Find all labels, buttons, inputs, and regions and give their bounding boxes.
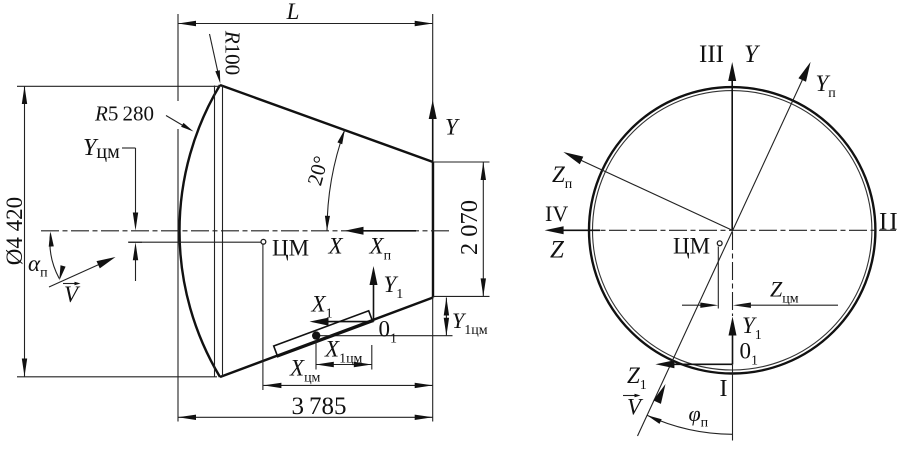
horizontal centerline (Z axis line) [549, 229, 896, 231]
svg-text:Ø4 420: Ø4 420 [2, 197, 27, 265]
svg-text:R100: R100 [221, 30, 245, 75]
svg-text:II: II [879, 209, 900, 236]
base circle (rear view), double contour [589, 87, 875, 373]
dimension Y_cm (center of mass height) [83, 135, 261, 281]
dimension X_cm [263, 356, 432, 389]
velocity vector V (rear view) [623, 384, 666, 420]
dimension Y_1cm [444, 298, 488, 339]
axis X and X_p along centerline [328, 227, 417, 264]
origin 0_1 label (left view) [379, 317, 398, 347]
angle alpha_p arc [28, 232, 66, 281]
leader R100 [210, 30, 245, 84]
svg-text:IV: IV [545, 201, 568, 226]
sphere-cone junction lines [215, 86, 223, 377]
origin 0_1 label (rear view) [740, 339, 759, 369]
svg-text:III: III [699, 41, 724, 68]
quadrant label III [699, 41, 724, 68]
inclined plate (body 1) [274, 311, 373, 357]
horizontal centerline of capsule [41, 230, 452, 232]
quadrant label II [879, 209, 900, 236]
dimension 3 785 [178, 393, 433, 420]
horizontal reference line through plate CM [316, 335, 453, 337]
vertical centerline below center [732, 232, 734, 441]
quadrant label I [720, 376, 728, 402]
svg-text:R5 280: R5 280 [94, 102, 154, 126]
svg-text:I: I [720, 376, 728, 402]
plate center-of-mass dot [312, 331, 320, 369]
center of mass marker (rear view) [673, 234, 722, 309]
quadrant label IV [545, 201, 568, 226]
axis X_1 (left view) [310, 292, 374, 326]
extension line left (nose tip) [177, 14, 179, 422]
dimension diameter 4 420 [2, 86, 220, 377]
axis Z_1 (rear view) [627, 360, 733, 393]
dimension X_1cm [316, 337, 372, 370]
dimension L [178, 0, 433, 26]
svg-text:3 785: 3 785 [291, 393, 346, 420]
angle phi_p arc [647, 401, 732, 434]
svg-text:2 070: 2 070 [456, 200, 483, 255]
axis Z_p [552, 152, 732, 230]
axis Y_p line through center [638, 62, 837, 436]
axis Y (rear view) [728, 41, 761, 230]
capsule body outline (spherical nose + conical frustum) [179, 85, 433, 377]
dimension Z_cm [682, 277, 838, 308]
dimension 2 070 (base diameter) [433, 162, 490, 296]
svg-text:ЦМ: ЦМ [272, 236, 309, 261]
svg-text:X: X [328, 234, 344, 259]
velocity vector V (left view) [49, 257, 116, 307]
axis Y_1 (left view) [370, 266, 404, 322]
extension line right (base plane) [432, 14, 434, 422]
cone half-angle 20 deg arc [302, 129, 345, 231]
svg-text:ЦМ: ЦМ [673, 234, 710, 259]
svg-text:Y: Y [445, 115, 460, 140]
svg-text:Z: Z [550, 237, 565, 264]
leader R5 280 [94, 102, 194, 132]
svg-text:L: L [286, 0, 300, 24]
center of mass marker and label [261, 236, 309, 391]
axis Z [545, 226, 600, 263]
axis Y (left view) [429, 100, 460, 230]
axis Y_1 (rear view) [729, 313, 762, 365]
